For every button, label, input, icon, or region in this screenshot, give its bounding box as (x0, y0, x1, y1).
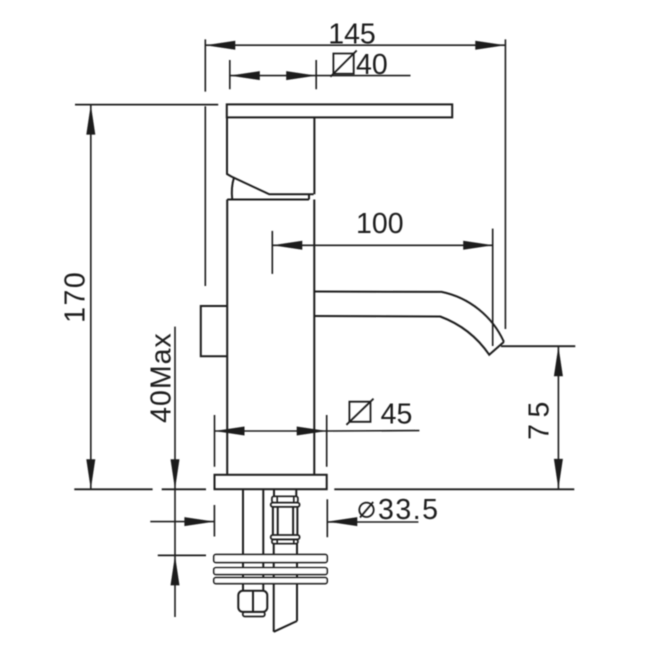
cartridge housing (227, 117, 314, 194)
dim 40Max lower reference dash (158, 554, 206, 556)
svg-text:75: 75 (523, 395, 555, 440)
stud nut (238, 591, 267, 612)
svg-text:145: 145 (328, 19, 376, 51)
dim 145 extension right (504, 39, 506, 329)
side outlet box (201, 306, 227, 356)
base flange (215, 475, 327, 489)
supply hose fitting neck (274, 489, 296, 496)
dim sq40 extensions (230, 60, 316, 89)
hose lower collar (271, 535, 300, 539)
dim 75 line (557, 346, 559, 489)
dim 170 line (90, 105, 92, 490)
svg-text:40Max: 40Max (145, 332, 177, 423)
square symbol 40 (330, 51, 356, 77)
svg-text:33.5: 33.5 (378, 494, 439, 526)
svg-text:100: 100 (356, 208, 404, 240)
dim 100 extension right (492, 229, 494, 346)
handle plate (227, 104, 452, 117)
dim 145 extension left (204, 39, 206, 286)
dim 145 arrows (205, 41, 505, 50)
dim 33.5 left arrow (184, 517, 214, 526)
dim 170 arrows (86, 105, 95, 490)
dim 40Max arrows (171, 459, 180, 585)
dim sq45 arrows (215, 427, 327, 436)
handle pivot arc (232, 178, 234, 199)
dim sq40 line + leader (230, 75, 411, 77)
dim 100 arrows (272, 241, 493, 250)
clamp plate 2 (214, 568, 327, 575)
cartridge/body joint notch (308, 194, 310, 199)
clamp plate 1 (214, 555, 327, 563)
dim sq45 extensions (215, 415, 327, 467)
dim 33.5 left tail (150, 521, 214, 523)
supply pipe (274, 544, 297, 632)
svg-text:170: 170 (59, 271, 91, 323)
dim 75 arrows (554, 346, 563, 489)
hose upper collar (271, 503, 300, 507)
dim 33.5 left extension dashed (213, 505, 215, 537)
nut washer (243, 612, 265, 617)
mounting stud (243, 489, 263, 591)
svg-text:45: 45 (381, 399, 413, 431)
dim 40Max line (174, 327, 176, 617)
svg-text:40: 40 (356, 49, 388, 81)
dim sq40 arrows (230, 71, 316, 80)
deck line (74, 488, 574, 490)
dim 170 top reference (75, 104, 218, 106)
dim 145 line (205, 44, 505, 46)
dim 33.5 leader (327, 521, 418, 523)
dim sq45 line + leader (215, 430, 420, 432)
diameter symbol (359, 502, 373, 518)
spout (314, 292, 504, 355)
clamp plate 3 (214, 578, 327, 584)
dim 33.5 right arrow (327, 517, 357, 526)
dim 75 top reference (501, 345, 575, 347)
dim 33.5 right extension (326, 499, 328, 537)
dim 100 extension left (271, 231, 273, 274)
dim 100 line (272, 244, 493, 246)
hose body (273, 507, 298, 535)
hose upper ring (272, 496, 298, 502)
hose lower ring (272, 539, 298, 543)
faucet body (227, 200, 314, 475)
square symbol 45 (346, 399, 373, 425)
